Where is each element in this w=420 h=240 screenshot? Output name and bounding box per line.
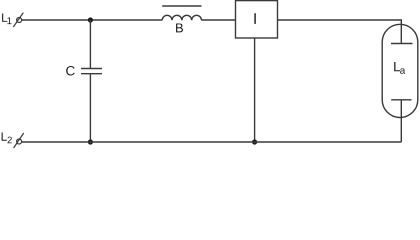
lamp La envelope (382, 24, 418, 117)
node junction box lead to bottom rail (252, 139, 257, 144)
label I (254, 13, 255, 24)
label La (394, 62, 405, 74)
box I (ignitor) (236, 1, 278, 38)
node junction top of C (88, 17, 93, 22)
wire C branch upper (89, 20, 91, 69)
lamp La bottom electrode (391, 99, 411, 101)
wire C branch lower (89, 74, 91, 142)
capacitor C plates (81, 69, 102, 74)
wire between coil and box (202, 19, 236, 21)
node junction bottom of C (88, 139, 93, 144)
label L1 (2, 14, 11, 25)
label B (176, 23, 183, 32)
inductor B coil (162, 15, 201, 20)
lamp La top electrode (391, 43, 413, 45)
wire top rail left (22, 19, 163, 21)
terminal L2 (14, 133, 24, 148)
inductor B core bar (162, 5, 201, 7)
wire bottom rail (22, 141, 402, 143)
terminal L1 (13, 13, 23, 27)
wire box to lamp with corner down (278, 20, 402, 44)
label C (66, 66, 75, 76)
wire lamp bottom lead (400, 100, 402, 142)
label L2 (2, 132, 12, 143)
wire box bottom lead (254, 38, 256, 142)
